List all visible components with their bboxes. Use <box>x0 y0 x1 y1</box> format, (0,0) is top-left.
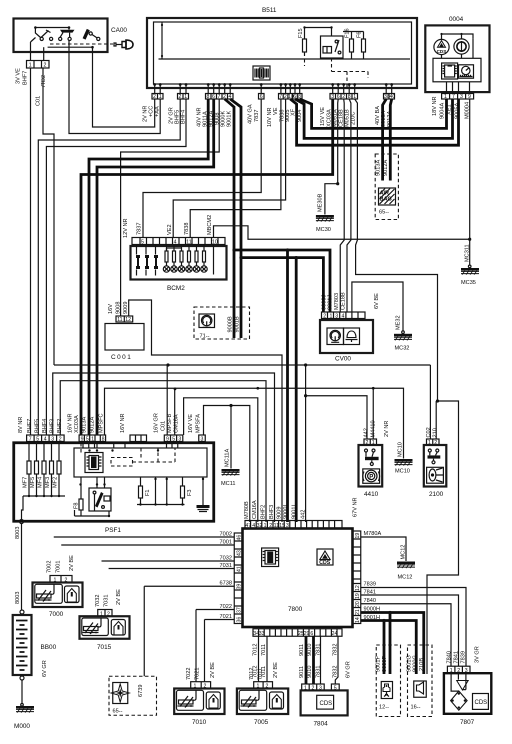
svg-text:MF4: MF4 <box>38 477 44 488</box>
svg-text:9000J: 9000J <box>322 295 328 310</box>
svg-text:9000G: 9000G <box>412 655 418 672</box>
svg-text:2: 2 <box>323 314 326 320</box>
svg-text:7005: 7005 <box>254 719 269 726</box>
dashed key linkage <box>50 43 113 45</box>
svg-text:7807: 7807 <box>460 719 475 726</box>
connector pins 1 2 below CA00 <box>27 61 50 69</box>
svg-text:0004: 0004 <box>449 16 464 23</box>
wire 9010 thick <box>312 636 315 684</box>
PSF1 pin row empty cells <box>130 435 147 442</box>
7800 bottom pin row <box>253 629 342 637</box>
svg-text:2V BE: 2V BE <box>69 555 75 571</box>
svg-text:CE18B: CE18B <box>340 292 346 310</box>
right wire 7839 <box>361 588 466 667</box>
svg-text:65--: 65-- <box>113 709 123 715</box>
fuse MF7 <box>23 442 32 497</box>
svg-text:6V GR: 6V GR <box>346 661 352 678</box>
engine fusebox PSF1 pin row left group <box>18 417 64 443</box>
wire 7832 <box>335 636 338 684</box>
speedometer icon <box>459 65 474 78</box>
svg-text:F3: F3 <box>187 489 193 496</box>
svg-text:12V NR: 12V NR <box>123 218 129 238</box>
key symbol <box>114 40 133 49</box>
wire XC03A thick B511 to PSF1 <box>81 99 333 435</box>
ground MC12 <box>397 562 415 569</box>
B511 pin row: group 2V GR BHF5 BHF4 <box>169 94 189 125</box>
svg-text:9001J: 9001J <box>328 295 334 310</box>
svg-text:CDS: CDS <box>475 700 488 706</box>
compartment entry stubs <box>83 442 178 449</box>
svg-text:F16: F16 <box>345 28 351 38</box>
CDS label box <box>473 694 489 710</box>
wire 9011A thick B511 to PSF1 <box>89 99 208 435</box>
svg-text:BAG: BAG <box>380 197 392 203</box>
svg-text:7002: 7002 <box>47 561 53 573</box>
svg-text:7011: 7011 <box>261 666 267 678</box>
aircon unit 65-- dashed fan <box>109 676 157 715</box>
svg-text:9009: 9009 <box>277 507 283 519</box>
svg-text:8003: 8003 <box>15 592 21 604</box>
svg-text:BHF4: BHF4 <box>42 419 48 433</box>
7800 right pin column <box>353 531 362 624</box>
svg-text:MBCM2: MBCM2 <box>207 215 213 235</box>
svg-text:7032: 7032 <box>95 595 101 607</box>
svg-text:43: 43 <box>237 550 243 556</box>
svg-text:16V: 16V <box>108 304 114 314</box>
wire MC30 branch <box>325 184 338 215</box>
svg-text:7831: 7831 <box>316 666 322 678</box>
switch contact S1 <box>35 28 52 41</box>
svg-text:4: 4 <box>342 314 345 320</box>
svg-text:1: 1 <box>330 314 333 320</box>
wire MBCM2 to MC35 rail <box>214 226 470 239</box>
svg-text:7010: 7010 <box>192 719 207 726</box>
7800 CDS warning icon <box>317 549 333 566</box>
svg-text:BCM2: BCM2 <box>167 285 185 292</box>
gauge circle <box>454 39 469 54</box>
svg-text:MF3: MF3 <box>45 477 51 488</box>
svg-text:MC30: MC30 <box>316 227 331 233</box>
wire thick 9004 B511 to 0004 pin1 <box>300 99 447 128</box>
svg-text:F15: F15 <box>298 28 304 38</box>
right wire 7840 <box>361 604 451 666</box>
svg-text:9001G: 9001G <box>406 655 412 672</box>
svg-text:1: 1 <box>264 523 267 529</box>
right wire 9001H thick <box>361 621 417 675</box>
svg-text:24: 24 <box>332 631 338 637</box>
svg-text:7804: 7804 <box>314 721 329 728</box>
svg-text:9000F: 9000F <box>382 656 388 672</box>
B511 internal bus compartment <box>159 58 411 60</box>
svg-text:2100: 2100 <box>429 491 444 498</box>
battery BB00 <box>13 610 57 730</box>
svg-text:7840: 7840 <box>446 651 452 663</box>
svg-text:BHF2: BHF2 <box>261 505 267 519</box>
wire M780B CM16A to 7800 via PSF1 pin3 <box>184 398 258 522</box>
svg-text:7012: 7012 <box>253 666 259 678</box>
wire BHF2 PSF1 pin2 to 7800 <box>60 381 266 522</box>
wire 7012 <box>258 636 260 681</box>
wire MC11A PSF1 to MC11 <box>204 406 250 523</box>
svg-text:39: 39 <box>237 584 243 590</box>
svg-text:CDS: CDS <box>319 560 330 566</box>
svg-text:7002: 7002 <box>220 532 232 538</box>
svg-text:442: 442 <box>301 510 307 519</box>
svg-text:6739: 6739 <box>138 685 144 697</box>
svg-text:71--: 71-- <box>200 334 210 340</box>
svg-text:BHF5: BHF5 <box>35 419 41 433</box>
svg-text:7841: 7841 <box>364 590 376 596</box>
coolant temp sensor 7010 <box>174 662 224 726</box>
svg-text:7022: 7022 <box>220 604 232 610</box>
svg-text:7838: 7838 <box>184 223 190 235</box>
ground MC30 <box>316 215 334 222</box>
wire +CC B511 to CA00 <box>93 47 155 127</box>
7800 IC icon <box>262 548 279 567</box>
BCM2 resistor lamp cells <box>163 245 207 273</box>
PSF1 pin row group 9 5 1 8 <box>68 413 106 442</box>
right wire 7841 <box>361 595 459 666</box>
wire 7831 <box>320 636 322 684</box>
svg-text:6V BE: 6V BE <box>374 293 380 309</box>
wire lower link in CA00 <box>48 46 93 48</box>
svg-text:4: 4 <box>252 523 255 529</box>
svg-text:7840: 7840 <box>364 598 376 604</box>
svg-text:9012A: 9012A <box>90 417 96 433</box>
diagnostic socket 7804 <box>301 684 348 728</box>
wire CA00 pin1 stub <box>31 38 36 61</box>
svg-text:12: 12 <box>125 317 131 323</box>
svg-text:16V GR: 16V GR <box>154 413 160 433</box>
svg-text:2V BE: 2V BE <box>116 589 122 605</box>
left wire 6738 <box>144 586 234 676</box>
svg-text:37: 37 <box>237 607 243 613</box>
svg-text:MC12: MC12 <box>400 545 406 560</box>
svg-text:/TD2: /TD2 <box>41 75 47 87</box>
svg-text:67V NR: 67V NR <box>353 497 359 517</box>
svg-text:9001I: 9001I <box>292 505 298 519</box>
svg-text:9001H: 9001H <box>364 615 380 621</box>
PSF1 inner compartment <box>74 448 207 477</box>
airbag unit 65-- dashed <box>375 154 398 220</box>
svg-text:CA00: CA00 <box>111 27 127 34</box>
svg-text:M780A: M780A <box>364 531 382 537</box>
wire battery positive <box>21 524 23 611</box>
wire M4410 to rail <box>372 388 374 439</box>
instrument cluster 0004 <box>425 16 489 119</box>
svg-text:MC11: MC11 <box>221 481 236 487</box>
svg-text:3: 3 <box>335 314 338 320</box>
wire VE2 B511 to BCM2 <box>173 99 285 238</box>
dashed internal links <box>305 58 369 87</box>
svg-text:9012A: 9012A <box>383 160 389 176</box>
alarm unit CV00 <box>320 292 380 362</box>
svg-text:1: 1 <box>29 63 32 69</box>
PSF1 main box <box>14 443 214 522</box>
svg-text:21: 21 <box>355 609 361 615</box>
svg-text:2: 2 <box>269 523 272 529</box>
op-amp triangle <box>457 681 469 691</box>
BCM2 suppressors <box>136 255 158 269</box>
fuse F3 <box>181 477 194 505</box>
cluster electronics compartment <box>433 58 481 82</box>
svg-text:PSF1: PSF1 <box>105 527 121 534</box>
svg-text:46: 46 <box>237 535 243 541</box>
wire thick 9005 B511 to 0004 pin3 <box>290 99 458 145</box>
fuse F16 <box>345 28 354 59</box>
svg-text:7000: 7000 <box>49 611 64 618</box>
wire CA00 pin2 stub <box>43 47 45 60</box>
svg-text:5: 5 <box>141 240 144 246</box>
svg-text:7015: 7015 <box>97 644 112 651</box>
svg-text:7022: 7022 <box>186 668 192 680</box>
wire M051A B511 to MC30 <box>337 99 340 184</box>
relay 2 with switch <box>79 477 111 511</box>
relay RL in B511 <box>321 28 344 59</box>
wire 9009 C001 to 7800 <box>129 300 282 522</box>
svg-text:MC35: MC35 <box>461 280 476 286</box>
B511 pin row: group 10V NR VE <box>267 94 303 128</box>
svg-text:CM16A: CM16A <box>252 500 258 519</box>
B511 pin row: group 40V NR <box>197 94 234 128</box>
svg-text:C01: C01 <box>36 96 42 106</box>
svg-text:M000: M000 <box>14 723 30 730</box>
svg-text:7831: 7831 <box>316 644 322 656</box>
B511 pin row: group 2V NR <box>143 94 164 123</box>
svg-text:19: 19 <box>355 593 361 599</box>
svg-text:7011: 7011 <box>261 644 267 656</box>
svg-text:14: 14 <box>355 617 361 623</box>
svg-text:C001: C001 <box>111 354 132 361</box>
left wire 7022 <box>196 610 234 682</box>
wire 9000K thick B511 down <box>225 99 234 338</box>
bell icon <box>344 328 360 345</box>
svg-text:19: 19 <box>355 533 361 539</box>
svg-text:9004A: 9004A <box>440 103 446 119</box>
svg-text:7021: 7021 <box>220 614 232 620</box>
svg-text:XC03A: XC03A <box>74 415 80 433</box>
wire C01 M780B horizontal <box>54 365 430 439</box>
svg-text:18V NR: 18V NR <box>432 96 438 116</box>
svg-text:7001: 7001 <box>220 540 232 546</box>
svg-text:8V NR: 8V NR <box>18 417 24 433</box>
wire C01 drop to PSF1 pin9 <box>166 365 168 435</box>
svg-text:7837: 7837 <box>137 223 143 235</box>
svg-text:M4410: M4410 <box>370 420 376 437</box>
left wire 7002 <box>54 536 235 538</box>
right wire M780A to MC12 <box>361 537 406 561</box>
svg-text:ME30B: ME30B <box>317 193 323 212</box>
svg-text:9001B: 9001B <box>234 316 240 332</box>
svg-text:33: 33 <box>259 631 265 637</box>
relay2 bottom wire <box>75 511 110 516</box>
svg-text:16V NR: 16V NR <box>68 413 74 433</box>
svg-text:9011: 9011 <box>299 666 305 678</box>
svg-text:3V GR: 3V GR <box>475 646 481 663</box>
wire thick 9012A to airbag <box>390 99 391 181</box>
engine ECU 7800 <box>54 497 466 681</box>
wire BHF7 CA00 pin1 to PSF1 <box>30 68 32 435</box>
svg-text:15: 15 <box>279 523 285 529</box>
horn unit 16-- dashed <box>406 645 432 717</box>
B511 pin row: group 15V VE <box>320 94 358 128</box>
svg-text:MF2: MF2 <box>53 477 59 488</box>
svg-text:6V GR: 6V GR <box>42 660 48 677</box>
svg-text:6: 6 <box>310 631 313 637</box>
svg-text:9008: 9008 <box>116 302 122 314</box>
svg-text:MPSFA: MPSFA <box>196 414 202 433</box>
svg-text:BHF7: BHF7 <box>27 419 33 433</box>
svg-text:ME32: ME32 <box>396 315 402 330</box>
svg-text:F6: F6 <box>357 31 363 38</box>
gauge icon <box>327 328 344 345</box>
svg-text:7832: 7832 <box>332 666 338 678</box>
wire CAN 9001I to 7800 <box>295 258 298 522</box>
svg-text:MC311: MC311 <box>464 244 470 262</box>
svg-text:VE: VE <box>273 107 279 115</box>
ground MC11 <box>222 469 240 476</box>
svg-text:MPSFB: MPSFB <box>167 413 173 433</box>
7800 left pin column <box>234 533 242 624</box>
svg-text:C02: C02 <box>426 427 432 437</box>
svg-text:CDS: CDS <box>437 49 447 54</box>
svg-text:MC10: MC10 <box>395 469 410 475</box>
relay module icon <box>85 453 103 473</box>
svg-text:BB00: BB00 <box>41 644 57 651</box>
svg-text:7031: 7031 <box>220 563 232 569</box>
svg-text:9000B: 9000B <box>228 316 234 332</box>
B511 internal left riser <box>161 22 163 59</box>
svg-text:7839: 7839 <box>460 651 466 663</box>
wire 210 2100 pin2 and 210B run <box>427 401 459 674</box>
wire CE18B B511 to CV00 pin3 <box>340 99 344 312</box>
wire 9008 B511 to C001 <box>121 99 220 316</box>
svg-text:12: 12 <box>355 585 361 591</box>
fuse MF2 <box>53 442 62 497</box>
svg-text:9010: 9010 <box>307 666 313 678</box>
optional unit 71-- dashed with gauge <box>194 307 250 340</box>
svg-text:16V NR: 16V NR <box>120 413 126 433</box>
svg-text:BHF3: BHF3 <box>269 505 275 519</box>
B511 pin stubs <box>155 84 392 94</box>
fuse F1 <box>139 477 152 505</box>
svg-text:3V VE: 3V VE <box>16 68 22 84</box>
svg-text:20: 20 <box>355 601 361 607</box>
svg-text:2V NR: 2V NR <box>384 421 390 437</box>
svg-text:MC11A: MC11A <box>224 448 230 467</box>
svg-text:210: 210 <box>433 428 439 437</box>
svg-text:9010: 9010 <box>307 644 313 656</box>
svg-text:B511: B511 <box>262 7 277 14</box>
svg-text:16--: 16-- <box>411 705 421 711</box>
svg-text:29: 29 <box>304 631 310 637</box>
svg-text:7841: 7841 <box>453 651 459 663</box>
coolant sensor 7000 <box>33 555 83 618</box>
svg-text:442: 442 <box>364 428 370 437</box>
CA00 internal feed wire <box>35 27 69 29</box>
wire +AA B511 to CA00 <box>69 41 160 134</box>
ground rail to MC10 <box>105 388 404 458</box>
fuse F15 <box>298 28 307 57</box>
ground MC35 <box>468 265 471 268</box>
IC symbol <box>442 63 458 79</box>
oil level switch 2100 <box>424 427 447 498</box>
svg-text:36: 36 <box>237 617 243 623</box>
wire thick XE B511 to 0004 pin7 <box>295 99 453 138</box>
svg-text:6738: 6738 <box>220 581 232 587</box>
left wire 7021 <box>205 620 235 682</box>
fuse MF5 <box>30 442 39 497</box>
svg-text:MPSFC: MPSFC <box>99 413 105 433</box>
dashed links in compartment <box>111 458 133 467</box>
svg-text:3: 3 <box>286 523 289 529</box>
wire CAN L branch to CV00 <box>241 258 323 312</box>
injection unit 12-- dashed <box>376 645 401 717</box>
svg-text:32: 32 <box>257 523 263 529</box>
svg-text:9000I: 9000I <box>283 505 289 519</box>
fuse MF3 <box>45 442 54 497</box>
wire BHF3 PSF1 pin3 to 7800 <box>53 373 275 522</box>
PSF1 pin row group 9 5 3 <box>154 413 183 443</box>
svg-text:7021: 7021 <box>195 668 201 680</box>
0004 pin row 1 7 3 9 <box>442 82 474 100</box>
svg-text:9013A: 9013A <box>82 417 88 433</box>
svg-text:40V GA: 40V GA <box>248 104 254 124</box>
B511 pin row: group 40V BA 38 40 <box>375 94 395 128</box>
svg-text:P: P <box>369 475 373 481</box>
wire BHF4 B511 to bundle <box>46 99 186 435</box>
wire BHF5 B511 to bundle <box>38 99 180 435</box>
svg-text:M780B: M780B <box>244 501 250 519</box>
P icon <box>363 469 380 483</box>
svg-text:MF7: MF7 <box>23 477 29 488</box>
svg-text:9013A: 9013A <box>375 160 381 176</box>
internal ground in PSF1 <box>202 477 204 505</box>
ground M000 <box>16 706 34 713</box>
wire 442 net 7800 to 4410 <box>306 365 367 522</box>
air temp sensor 7015 <box>80 589 130 651</box>
park brake switch 4410 <box>359 420 391 498</box>
internal stubs <box>442 34 474 39</box>
svg-text:CDS: CDS <box>320 701 333 707</box>
svg-text:MC12: MC12 <box>398 575 413 581</box>
svg-text:C01: C01 <box>161 421 167 431</box>
svg-text:210B: 210B <box>419 658 425 671</box>
svg-text:7800: 7800 <box>288 606 303 613</box>
svg-text:9000H: 9000H <box>364 607 380 613</box>
left wire 7031 <box>109 568 235 570</box>
diamond rectifier <box>451 673 468 711</box>
ignition switch unit CA00 <box>14 19 134 107</box>
relay module in bus area <box>253 66 270 80</box>
left wire 7001 <box>61 544 234 546</box>
wire 7837 B511 to BCM2 <box>143 99 261 238</box>
battery feed terminal <box>22 496 24 520</box>
svg-text:10: 10 <box>212 240 218 246</box>
fuse MF4 <box>38 442 47 497</box>
svg-text:2V BE: 2V BE <box>210 662 216 678</box>
wire M0004 0004 pin9 to MC35 <box>469 99 471 265</box>
wire CAN 9000I to 7800 <box>286 250 289 522</box>
svg-text:7832: 7832 <box>332 644 338 656</box>
svg-text:2V BE: 2V BE <box>273 662 279 678</box>
oil pressure unit 7807 <box>444 646 491 726</box>
warning lamp CDS circle <box>434 39 449 54</box>
B511 pin 6 40V GA 7837 <box>248 94 265 125</box>
wire 7838 B511 to BCM2 <box>190 99 281 238</box>
control module BCM2 <box>131 215 227 292</box>
svg-text:MC32: MC32 <box>395 346 410 352</box>
